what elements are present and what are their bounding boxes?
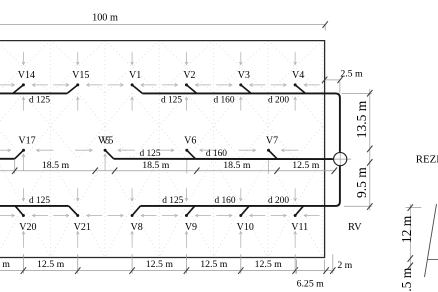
svg-text:12.5 m: 12.5 m <box>200 259 228 270</box>
svg-text:1.5 m: 1.5 m <box>399 267 414 292</box>
valve V21 riser <box>69 206 78 216</box>
pump circle crosshair <box>333 158 352 160</box>
svg-text:RV: RV <box>348 222 362 233</box>
svg-text:12.5 m: 12.5 m <box>255 259 283 270</box>
svg-text:d 160: d 160 <box>213 96 234 106</box>
svg-text:d 125: d 125 <box>29 96 50 106</box>
svg-text:V10: V10 <box>237 222 254 233</box>
svg-text:V5: V5 <box>101 136 113 147</box>
valve dot V4 <box>294 83 297 86</box>
valve dot V17 <box>22 149 25 152</box>
right dimension chain <box>369 89 371 211</box>
valve V14 riser <box>13 85 24 94</box>
valve dot V2 <box>185 83 188 86</box>
bottom-right lateral pipe and main riser pipe <box>140 166 340 206</box>
svg-text:2 m: 2 m <box>337 260 352 271</box>
mid-left lateral pipe <box>0 158 15 160</box>
svg-text:6.25 m: 6.25 m <box>297 278 325 289</box>
svg-text:d 125: d 125 <box>29 196 50 206</box>
svg-text:12.5 m: 12.5 m <box>292 160 320 171</box>
svg-text:12.5 m: 12.5 m <box>146 259 174 270</box>
mid main pipe to pump <box>114 158 334 160</box>
svg-text:V17: V17 <box>18 136 35 147</box>
valve V7 riser <box>269 150 278 159</box>
top-right lateral pipe <box>142 93 340 152</box>
valve dot V8 <box>131 214 134 217</box>
svg-text:V2: V2 <box>183 70 195 81</box>
valve dot V3 <box>239 83 242 86</box>
svg-text:100 m: 100 m <box>92 12 118 23</box>
valve V2 riser <box>186 85 196 94</box>
svg-text:V8: V8 <box>130 222 142 233</box>
valve dot V5 <box>104 149 107 152</box>
svg-text:d 200: d 200 <box>268 96 289 106</box>
svg-text:2.5 m: 2.5 m <box>340 68 363 79</box>
valve V4 riser <box>295 85 305 94</box>
svg-text:V7: V7 <box>266 136 278 147</box>
hill slope line <box>425 204 437 277</box>
field boundary <box>0 41 325 258</box>
svg-text:d 125: d 125 <box>139 149 160 159</box>
valve V3 riser <box>241 85 251 94</box>
svg-text:V11: V11 <box>291 222 308 233</box>
valve dot V11 <box>294 214 297 217</box>
valve dot V20 <box>22 214 25 217</box>
valve V17 riser <box>15 150 24 159</box>
svg-text:12.5 m: 12.5 m <box>37 259 65 270</box>
V11 extension to 6.25 label <box>295 260 297 274</box>
valve dot V10 <box>239 214 242 217</box>
svg-text:V3: V3 <box>238 70 250 81</box>
dimension line 100 m <box>0 24 325 26</box>
svg-text:d 200: d 200 <box>268 196 289 206</box>
svg-text:V14: V14 <box>18 70 35 81</box>
valve V6 riser <box>187 150 196 159</box>
mid dimension chain <box>0 170 336 172</box>
valve dot V1 <box>131 83 134 86</box>
sprinkler coverage dotted grid <box>0 41 431 258</box>
flow arrows <box>0 52 320 248</box>
valve dot V15 <box>76 83 79 86</box>
bottom-left lateral pipe <box>0 205 69 207</box>
pump circle <box>334 153 347 166</box>
2 m extension <box>332 254 334 273</box>
svg-text:V1: V1 <box>129 70 141 81</box>
valve dot V9 <box>185 214 188 217</box>
svg-text:V4: V4 <box>292 70 304 81</box>
valve dot V7 <box>267 149 270 152</box>
valve V8 riser <box>132 206 140 216</box>
svg-text:V6: V6 <box>184 136 196 147</box>
bottom dimension chain <box>0 270 335 272</box>
field corner extension <box>324 260 326 274</box>
valve dot V6 <box>185 149 188 152</box>
svg-text:18.5 m: 18.5 m <box>223 160 251 171</box>
svg-text:18.5 m: 18.5 m <box>42 160 70 171</box>
svg-text:d 160: d 160 <box>206 149 227 159</box>
svg-text:12 m: 12 m <box>399 215 414 243</box>
valve dot V14 <box>22 83 25 86</box>
svg-text:13.5 m: 13.5 m <box>354 100 369 138</box>
water level line <box>427 259 438 261</box>
valve dot V21 <box>76 214 79 217</box>
valve V1 riser <box>132 85 142 94</box>
reservoir dimension chain <box>409 204 411 268</box>
valve V10 riser <box>241 206 249 216</box>
valve V11 riser <box>295 206 303 216</box>
svg-text:18.5 m: 18.5 m <box>142 160 170 171</box>
svg-text:V20: V20 <box>19 222 36 233</box>
svg-text:d 160: d 160 <box>214 196 235 206</box>
dimension 2.5 m <box>325 79 341 81</box>
valve V15 riser <box>67 85 78 94</box>
svg-text:d 125: d 125 <box>161 96 182 106</box>
svg-text:d 125: d 125 <box>162 196 183 206</box>
svg-text:V9: V9 <box>185 222 197 233</box>
svg-text:9.5 m: 9.5 m <box>354 167 369 198</box>
svg-text:V21: V21 <box>74 222 91 233</box>
svg-text:REZER: REZER <box>416 153 438 165</box>
valve V5 riser <box>105 150 114 159</box>
valve V9 riser <box>186 206 194 216</box>
svg-text:12.5 m: 12.5 m <box>0 259 10 270</box>
svg-text:V15: V15 <box>72 70 89 81</box>
valve V20 riser <box>15 206 23 216</box>
top-left lateral pipe d125 <box>0 92 67 94</box>
